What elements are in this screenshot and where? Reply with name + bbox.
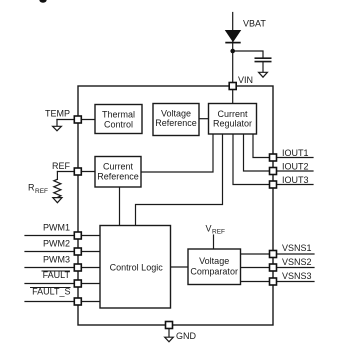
- svg-text:VSNS1: VSNS1: [282, 243, 312, 253]
- svg-text:REF: REF: [35, 188, 48, 195]
- svg-text:PWM2: PWM2: [43, 239, 70, 249]
- svg-text:VBAT: VBAT: [243, 19, 266, 29]
- svg-text:VSNS3: VSNS3: [282, 271, 312, 281]
- svg-text:PWM3: PWM3: [43, 255, 70, 265]
- svg-text:IOUT2: IOUT2: [282, 162, 309, 172]
- svg-text:Thermal: Thermal: [102, 110, 135, 120]
- svg-text:Current: Current: [103, 161, 134, 171]
- svg-text:TEMP: TEMP: [45, 109, 70, 119]
- svg-text:VIN: VIN: [238, 75, 253, 85]
- svg-text:Voltage: Voltage: [199, 256, 229, 266]
- svg-text:IOUT3: IOUT3: [282, 175, 309, 185]
- svg-text:REF: REF: [52, 161, 71, 171]
- svg-text:R: R: [28, 183, 35, 193]
- svg-text:Reference: Reference: [155, 118, 197, 128]
- svg-text:IOUT1: IOUT1: [282, 148, 309, 158]
- svg-text:Control Logic: Control Logic: [110, 263, 164, 273]
- svg-text:GND: GND: [176, 331, 197, 341]
- svg-text:Regulator: Regulator: [213, 119, 252, 129]
- svg-text:Current: Current: [217, 109, 248, 119]
- svg-text:Control: Control: [104, 119, 133, 129]
- svg-text:Reference: Reference: [97, 172, 139, 182]
- svg-text:Voltage: Voltage: [161, 108, 191, 118]
- svg-text:VSNS2: VSNS2: [282, 257, 312, 267]
- svg-text:V: V: [206, 224, 212, 234]
- svg-text:Comparator: Comparator: [190, 266, 238, 276]
- svg-text:PWM1: PWM1: [43, 223, 70, 233]
- svg-text:REF: REF: [212, 229, 225, 236]
